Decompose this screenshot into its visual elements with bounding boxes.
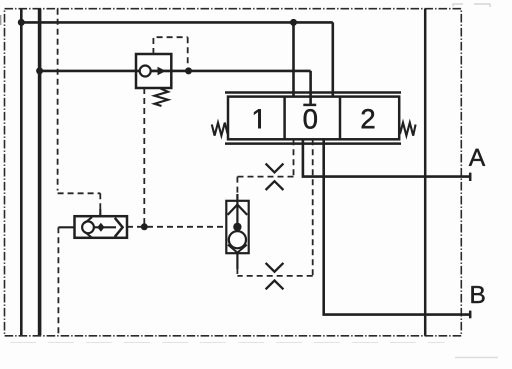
relief valve V1 flow arrow — [151, 70, 158, 72]
photo artifact lines (decorative) — [10, 342, 445, 344]
shuttle check valve C2 poppet diamond — [97, 223, 104, 232]
wire: relief output line from P to valve centre port — [40, 71, 311, 105]
check valve C1 lower seat lines — [228, 245, 247, 253]
enclosure boundary (dash-dot subplate frame) — [5, 9, 462, 336]
relief valve V1 body — [136, 54, 171, 88]
shuttle check valve C2 ball — [82, 221, 94, 233]
junction dot on top branch — [290, 19, 297, 26]
label A (port) — [469, 149, 485, 166]
wire: top branch from T line to valve top right port — [21, 22, 333, 96]
port B end tick — [469, 311, 472, 319]
wire: port B line — [324, 139, 471, 314]
wire: drain line dashed vertical upper with corner to shuttle top port — [58, 9, 101, 216]
spring of relief valve — [155, 89, 169, 107]
pilot line (dashed) of relief valve — [153, 37, 187, 66]
check valve C1 poppet dot — [233, 223, 241, 231]
directional valve D1 lower plate line — [225, 142, 401, 145]
directional valve D1 position dividers — [285, 97, 340, 140]
wire: shuttle valve top port solid stub — [99, 209, 101, 216]
junction dot on P line — [36, 67, 43, 74]
wire: right vertical tank return line — [424, 9, 427, 336]
label position 1 — [254, 109, 261, 128]
label B (port) — [471, 286, 484, 303]
wire: dashed riser from check valve bottom — [236, 268, 238, 276]
right spring of directional valve — [400, 123, 416, 136]
wire: port A line — [303, 139, 470, 176]
directional valve D1 body — [228, 97, 399, 140]
wire: drain line dashed vertical lower — [57, 227, 59, 335]
drain line (dashed) of relief valve down to junction — [143, 88, 145, 224]
wire: dashed line from shuttle valve to check valve C1 — [127, 226, 226, 228]
check valve C1 seat chevron — [228, 205, 248, 215]
shuttle check valve C2 body — [75, 216, 128, 238]
label position 2 — [362, 109, 375, 128]
wire: dashed pilot port below valve (left) to upper coupling — [237, 139, 293, 176]
quick coupling X1 (upper) — [266, 164, 284, 190]
shuttle check valve C2 seat ticks — [85, 217, 92, 237]
check valve C1 body — [226, 201, 248, 253]
wire: dashed riser to check valve top — [236, 177, 238, 196]
wire: dashed pilot port below valve (right) down to lower coupling line — [237, 139, 312, 276]
wire: tank line T vertical — [20, 9, 23, 335]
wire: shuttle valve left port stub — [58, 226, 74, 228]
left spring of directional valve — [212, 123, 228, 136]
shuttle check valve C2 through line — [94, 226, 116, 228]
label position 0 — [304, 109, 317, 128]
directional valve D1 blocked centre port T-bar — [303, 104, 316, 107]
wire: pressure line P vertical (bold) — [38, 9, 42, 335]
check valve C1 internal stem — [236, 201, 238, 227]
quick coupling X2 (lower) — [266, 263, 284, 289]
directional valve D1 upper plate line — [225, 91, 401, 94]
shuttle check valve C2 outlet chevron — [115, 218, 123, 237]
junction dot at T line / top branch — [18, 19, 25, 26]
junction dot after relief valve — [185, 67, 192, 74]
junction dot on drain net — [141, 223, 148, 230]
port A end tick — [469, 173, 472, 181]
relief valve V1 ball — [140, 66, 151, 77]
wire: vertical from junction dot to valve top left port — [292, 22, 295, 96]
check valve C1 ball — [229, 231, 246, 248]
